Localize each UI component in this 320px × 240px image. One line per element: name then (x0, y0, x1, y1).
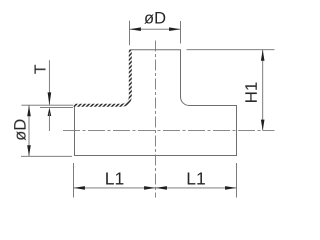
L1 center-right arrow (156, 186, 167, 190)
vertical centerline (155, 41, 157, 198)
hatched weld edge: run top left + left fillet + branch left edge (74, 50, 131, 105)
pipe run + branch outline (75, 50, 237, 156)
dimension H1: top extension line (187, 49, 275, 51)
dimension H1: dimension line (262, 50, 264, 131)
dimension L1: right extension line (236, 163, 238, 198)
dimension L1: dimension line (74, 187, 237, 189)
horizontal centerline (63, 130, 275, 132)
arrow right of oD top (169, 27, 180, 31)
dimension T: upper stem (48, 60, 50, 105)
oD left bottom extension line (21, 155, 72, 157)
svg-text:L1: L1 (186, 169, 205, 189)
L1 center-left arrow (144, 186, 155, 190)
dimension T: lower stem (48, 113, 50, 131)
svg-text:H1: H1 (242, 82, 261, 104)
dimension oD top: dimension line (130, 28, 181, 30)
dimension T: down arrow (48, 92, 52, 105)
dimension L1: left extension line (73, 163, 75, 198)
svg-text:L1: L1 (105, 169, 124, 189)
arrow left of oD top (130, 27, 141, 31)
dimension T: outer extension line (21, 104, 73, 106)
dimension oD top: extension lines (130, 21, 181, 46)
dimension T: up arrow (48, 107, 52, 116)
H1 down arrow (261, 120, 265, 131)
tee fitting dimension drawing (0, 0, 290, 209)
dimension T: inner extension line (40, 106, 73, 108)
L1 left arrow (74, 186, 85, 190)
dimension oD left: dimension line (28, 105, 30, 156)
L1 right arrow (225, 186, 236, 190)
svg-text:øD: øD (144, 10, 166, 28)
oD left up arrow (27, 105, 31, 116)
H1 up arrow (261, 50, 265, 61)
svg-text:øD: øD (12, 119, 30, 141)
svg-text:T: T (33, 64, 50, 74)
oD left down arrow (27, 145, 31, 156)
